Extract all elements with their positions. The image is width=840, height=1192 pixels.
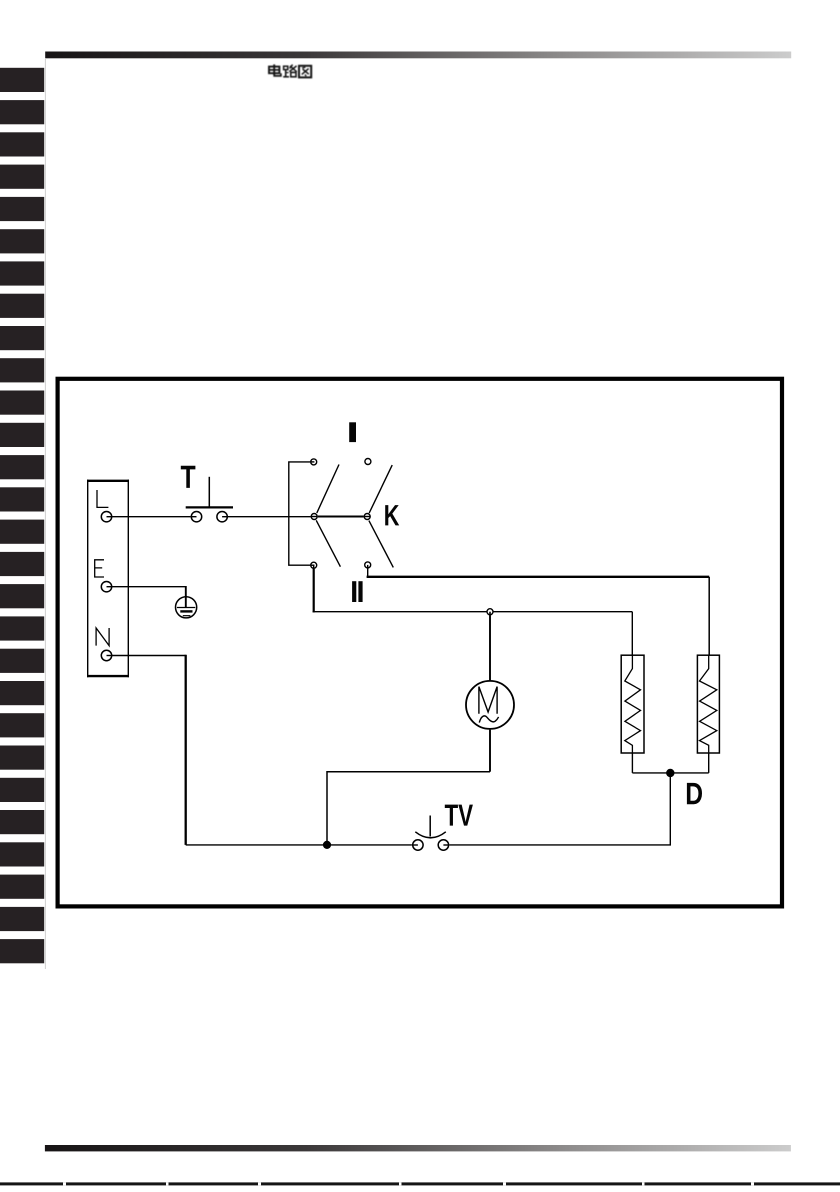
switch K bracket wire <box>289 462 310 565</box>
footer gradient rule <box>45 1145 791 1151</box>
label II (position 2) <box>352 581 363 602</box>
bottom page edge line <box>0 1182 840 1185</box>
motor M1 top lead <box>489 615 491 680</box>
switch K contacts <box>311 459 371 569</box>
ground (protective earth) symbol <box>176 596 197 618</box>
junction connector (motor tap) <box>487 609 493 615</box>
wire K pole2 lower contact down <box>367 568 369 578</box>
switch K wire ticks <box>311 462 371 569</box>
wire joining heater bottoms <box>632 772 708 774</box>
terminal E <box>101 582 111 592</box>
wire K pole1 lower contact down <box>313 569 315 613</box>
wire E to ground <box>112 586 185 588</box>
junction connector tick <box>489 612 491 616</box>
wire L to switch T <box>112 516 190 518</box>
stripe edge shadow <box>44 59 47 969</box>
switch T label <box>181 466 196 488</box>
terminal block body <box>87 480 129 678</box>
wire down to right heater <box>708 577 710 655</box>
heater element R2 (right) <box>697 655 719 753</box>
motor M1 <box>466 681 514 729</box>
label E <box>95 560 104 577</box>
wire N vertical drop <box>185 655 187 845</box>
label D <box>687 783 702 804</box>
node D dot <box>666 769 674 777</box>
switch K blades <box>316 465 393 568</box>
motor M1 bottom lead <box>489 730 491 772</box>
header gradient rule <box>45 52 791 59</box>
thermostat TV label <box>445 805 473 826</box>
label I (position 1) <box>349 422 356 442</box>
terminal L <box>101 512 111 522</box>
label L <box>97 490 108 507</box>
switch T (push button) <box>186 477 233 522</box>
wire down to left heater <box>631 612 633 656</box>
page title 电路图 (drawn glyphs) <box>269 64 311 77</box>
heater R2 bottom lead <box>708 753 710 773</box>
bottom wire to TV <box>186 844 412 846</box>
left registration stripes <box>0 68 44 964</box>
wire across to left heater <box>313 611 633 613</box>
wire T to switch K <box>228 516 311 518</box>
wire II across to right heater <box>367 576 710 578</box>
heater element R1 (left) <box>621 655 644 753</box>
terminal wire ticks <box>107 517 113 656</box>
wire N right then down <box>112 655 185 657</box>
heater R1 bottom lead <box>631 753 633 773</box>
label N <box>96 628 109 646</box>
terminal N <box>101 650 111 660</box>
bottom wire TV to node D drop <box>449 777 670 845</box>
thermostat TV <box>413 816 449 851</box>
switch K link between poles <box>318 516 364 518</box>
label K <box>385 505 399 525</box>
junction dot (N / motor / TV) <box>323 841 331 849</box>
circuit outer border <box>58 379 782 907</box>
wire motor to junction <box>327 772 490 845</box>
